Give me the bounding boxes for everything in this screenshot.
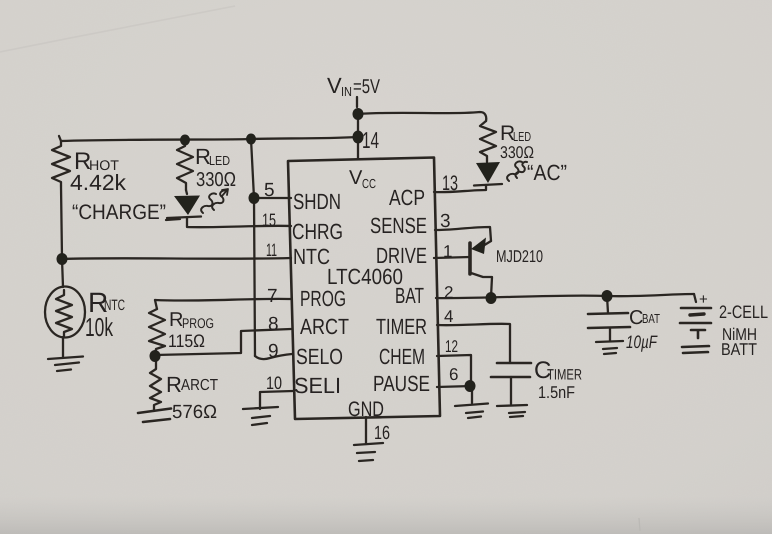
wire VIN stub (356, 97, 358, 107)
svg-text:1: 1 (443, 242, 452, 261)
node dot RPROG/RARCT (150, 350, 161, 362)
svg-text:9: 9 (268, 341, 279, 362)
svg-text:PROG: PROG (182, 315, 214, 331)
svg-text:8: 8 (268, 314, 279, 335)
svg-text:V: V (327, 73, 342, 98)
ground RARCT (138, 409, 171, 423)
wire pin1 DRIVE to base (434, 257, 470, 258)
svg-text:MJD210: MJD210 (496, 247, 543, 266)
svg-text:10k: 10k (85, 312, 114, 342)
resistor RARCT zigzag (150, 358, 161, 411)
capacitor CTIMER plates (491, 363, 531, 377)
svg-text:PROG: PROG (300, 286, 346, 311)
svg-text:“AC”: “AC” (527, 160, 567, 185)
svg-text:GND: GND (348, 398, 384, 421)
transistor Q1 emitter (478, 241, 491, 249)
thermistor RNTC circle (45, 287, 85, 338)
resistor RHOT zigzag (52, 136, 70, 186)
svg-text:PAUSE: PAUSE (373, 371, 430, 396)
wire pin6 PAUSE (437, 386, 472, 387)
wire RNTC top (62, 259, 63, 287)
battery plate2 (690, 314, 704, 315)
svg-text:ACP: ACP (389, 185, 425, 210)
transistor Q1 base bar (468, 243, 472, 274)
wire VCC branch vertical x255 to SELO (251, 139, 255, 356)
svg-text:SENSE: SENSE (370, 213, 427, 238)
svg-text:LED: LED (513, 129, 531, 144)
wire pin3 SENSE to Q1 emitter (435, 227, 491, 241)
resistor RLED1 zigzag (177, 140, 193, 190)
ground SELI (243, 407, 278, 425)
svg-text:CHRG: CHRG (292, 219, 343, 244)
wire RHOT bottom to NTC node (61, 186, 62, 258)
wire pin4 TIMER to CTIMER (437, 324, 510, 363)
node dot RLED1 top (180, 135, 190, 146)
IC LTC4060 box (288, 158, 440, 420)
wire battery stub (694, 294, 696, 302)
wire top rail left (VIN rail to RHOT) (61, 137, 358, 141)
transistor Q1 emitter arrow (471, 238, 486, 255)
battery plate3 (680, 322, 711, 325)
wire LED D1 cathode to pin 15 (187, 217, 291, 227)
svg-text:5: 5 (264, 180, 275, 201)
wire RNTC bottom (62, 337, 64, 357)
svg-text:CC: CC (362, 176, 376, 191)
wire pin9 SELO (255, 354, 292, 359)
svg-text:=5V: =5V (353, 76, 380, 98)
svg-text:576Ω: 576Ω (172, 402, 217, 423)
wire pin2 BAT rail (436, 294, 694, 298)
svg-text:7: 7 (267, 286, 278, 307)
svg-text:BAT: BAT (395, 283, 424, 308)
ground CTIMER (497, 405, 527, 417)
node dot x255 rail (246, 134, 256, 145)
svg-text:ARCT: ARCT (300, 314, 349, 339)
svg-text:2: 2 (444, 283, 453, 302)
svg-text:4: 4 (444, 307, 453, 326)
LED D1 anode stub (186, 190, 187, 194)
node dot CBAT/BAT (602, 290, 613, 302)
wire pin7 PROG from RPROG (155, 299, 291, 301)
svg-text:“CHARGE”: “CHARGE” (72, 201, 166, 224)
wire pin12 CHEM (437, 355, 471, 386)
svg-text:3: 3 (440, 211, 451, 232)
wire pin13 ACP to LED D2 (434, 185, 486, 192)
capacitor CBAT stub top (607, 296, 608, 313)
node dot VIN top (353, 108, 364, 120)
wire pin6 ground stub (471, 387, 473, 403)
capacitor CTIMER stub bottom (510, 377, 512, 404)
svg-text:+: + (699, 291, 708, 308)
svg-text:NTC: NTC (293, 244, 330, 269)
svg-text:2-CELL: 2-CELL (719, 302, 768, 322)
svg-text:ARCT: ARCT (181, 377, 218, 394)
svg-text:16: 16 (374, 423, 390, 444)
resistor RPROG stub (155, 300, 157, 309)
node dot SHDN (249, 192, 260, 204)
svg-text:BATT: BATT (721, 340, 757, 359)
svg-text:13: 13 (442, 172, 458, 195)
battery plate1 (681, 307, 711, 310)
svg-text:SELI: SELI (294, 373, 341, 398)
ground RNTC (48, 357, 83, 372)
LED D2 triangle (476, 162, 500, 183)
resistor RPROG zigzag (149, 309, 165, 355)
svg-text:SELO: SELO (296, 344, 343, 369)
capacitor CBAT stub bottom (609, 328, 611, 341)
ground CBAT (596, 341, 623, 354)
svg-text:11: 11 (266, 240, 277, 260)
svg-text:CHEM: CHEM (379, 344, 425, 369)
svg-text:IN: IN (341, 84, 352, 99)
ground PAUSE (455, 404, 488, 419)
svg-text:LED: LED (209, 153, 230, 168)
svg-text:TIMER: TIMER (547, 367, 582, 384)
LED D2 cathode bar (474, 184, 502, 186)
svg-text:330Ω: 330Ω (196, 169, 236, 191)
node dot pin14 (353, 131, 364, 144)
LED D1 cathode bar (166, 217, 201, 221)
svg-text:15: 15 (262, 210, 276, 230)
thermistor RNTC zigzag (56, 290, 72, 336)
wire top rail right to RLED2 (358, 112, 486, 121)
wire pin5 SHDN (254, 197, 291, 199)
battery plate5 (682, 346, 709, 353)
svg-text:SHDN: SHDN (293, 189, 341, 214)
svg-text:6: 6 (449, 365, 458, 384)
ground GND16 (354, 443, 383, 461)
svg-text:V: V (349, 167, 363, 189)
svg-text:TIMER: TIMER (376, 314, 427, 339)
LED D1 sparkle squiggles (201, 189, 228, 213)
wire pin16 GND stub (365, 417, 367, 444)
node dot NTC (57, 253, 68, 265)
battery plate4 T (691, 330, 705, 338)
svg-text:14: 14 (362, 127, 379, 153)
svg-text:10µF: 10µF (626, 332, 658, 352)
resistor RLED2 zigzag (480, 121, 496, 162)
svg-text:BAT: BAT (642, 311, 660, 326)
svg-text:12: 12 (445, 337, 458, 356)
svg-text:115Ω: 115Ω (168, 331, 205, 351)
svg-text:1.5nF: 1.5nF (538, 383, 575, 402)
wire pin10 SELI to ground (260, 391, 293, 409)
node NTC junction wire to pin 11 (62, 258, 291, 259)
svg-text:R: R (166, 372, 182, 397)
svg-text:4.42k: 4.42k (70, 170, 127, 195)
wire VIN vertical into IC pin 14 (357, 110, 359, 158)
node dot Q1 collector/BAT (486, 292, 497, 304)
LED D1 triangle (174, 196, 200, 216)
capacitor CBAT plates (588, 313, 630, 328)
node dot PAUSE/CHEM (465, 380, 476, 392)
wire pin8 ARCT from RPROG/RARCT node (155, 329, 291, 355)
transistor Q1 collector (471, 273, 492, 297)
svg-text:10: 10 (266, 373, 282, 393)
LED D2 sparkle squiggles (507, 161, 527, 181)
